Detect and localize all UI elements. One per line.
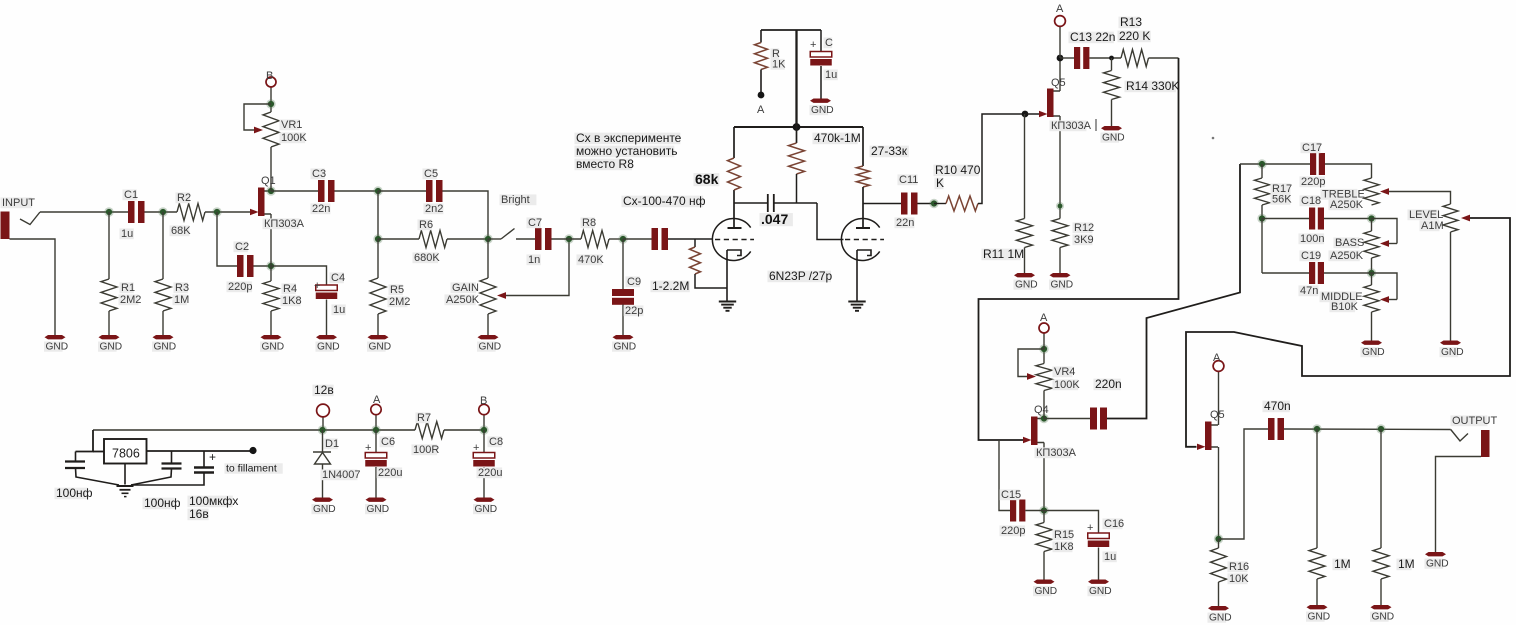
svg-text:1u: 1u	[825, 69, 837, 81]
wire R14 stem bottom	[1111, 100, 1113, 127]
svg-text:220p: 220p	[228, 281, 252, 293]
junction node C9	[618, 234, 627, 243]
ground GND level	[1440, 341, 1461, 345]
value 100n	[1299, 233, 1325, 244]
wire top mini rail	[761, 29, 821, 31]
wire R 1K bottom	[760, 70, 762, 93]
capacitor C13	[1074, 47, 1080, 69]
junction node C8	[479, 425, 488, 434]
svg-text:GND: GND	[1209, 613, 1232, 624]
svg-text:C9: C9	[627, 276, 641, 288]
wire R6 right	[447, 238, 488, 240]
value 100K VR4	[1053, 379, 1079, 390]
wire Q4 drain to VR4	[1043, 391, 1045, 419]
wire node to C16	[1044, 511, 1099, 534]
value 1u C16	[1103, 551, 1117, 562]
junction node C7 right	[564, 234, 573, 243]
wire 12v terminal stem	[322, 417, 324, 430]
svg-text:R11 1M: R11 1M	[983, 247, 1024, 261]
label to filament	[225, 463, 283, 473]
svg-text:1K8: 1K8	[1054, 541, 1074, 553]
label C6	[380, 436, 394, 447]
wire regulator ground stem	[124, 464, 126, 485]
wire bass wiper shaft	[1389, 243, 1397, 245]
capacitor C1	[128, 201, 135, 223]
label KP303A Q5m	[1050, 120, 1087, 131]
junction node C3/C5/R5	[373, 186, 382, 195]
tube V1b envelope	[841, 219, 879, 261]
wire Cx to tube grid	[668, 238, 713, 240]
wire middle wiper shaft	[1389, 299, 1397, 301]
ground GND C 1u	[810, 99, 831, 103]
svg-text:C3: C3	[312, 168, 326, 180]
label C4	[330, 272, 344, 283]
potentiometer TREBLE A250K	[1364, 178, 1379, 205]
svg-text:Q5: Q5	[1051, 77, 1066, 89]
svg-text:VR4: VR4	[1054, 366, 1075, 378]
wire R15 stem bottom	[1043, 552, 1045, 580]
label KP303A Q4	[1035, 447, 1072, 458]
resistor R5	[370, 278, 386, 314]
svg-text:GND: GND	[1362, 347, 1385, 358]
potentiometer VR4 100K	[1036, 364, 1052, 391]
wire rail to regulator input	[76, 430, 94, 452]
label C18	[1300, 195, 1320, 206]
svg-text:1M: 1M	[1334, 557, 1351, 571]
wire R8 to C9 node	[609, 238, 623, 240]
svg-text:C4: C4	[331, 272, 345, 284]
junction node VR1 wiper tap	[266, 99, 275, 108]
wire 1M b stem	[1380, 429, 1382, 548]
wire output sleeve to ground	[1436, 457, 1482, 553]
wire R13 to feedback line	[1149, 57, 1179, 59]
terminal A middle	[1055, 16, 1066, 27]
svg-text:22p: 22p	[625, 305, 643, 317]
wire C8 stem	[483, 430, 485, 453]
svg-text:R12: R12	[1074, 222, 1094, 234]
label BASS	[1334, 237, 1360, 248]
capacitor C2	[237, 255, 244, 277]
junction node C6	[371, 425, 380, 434]
label C1	[123, 189, 137, 200]
terminal A Q5	[1213, 361, 1224, 372]
ground GND R15	[1034, 580, 1055, 584]
capacitor 220n	[1090, 408, 1097, 430]
ground GND C9	[613, 335, 634, 339]
wire Q3 source down	[1059, 116, 1061, 219]
value 100K VR1	[280, 132, 306, 143]
svg-text:Q4: Q4	[1034, 404, 1049, 416]
junction node R1	[104, 207, 113, 216]
svg-text:220u: 220u	[378, 467, 402, 479]
value A1M	[1420, 220, 1440, 231]
junction node C15/R15	[1039, 506, 1048, 515]
junction node R4/C4	[266, 261, 275, 270]
value 100uF	[188, 496, 233, 508]
svg-text:100нф: 100нф	[56, 486, 93, 500]
wire .047 to grid node	[774, 202, 817, 204]
svg-text:Bright: Bright	[501, 194, 530, 206]
wire R16 stem top	[1218, 539, 1220, 548]
capacitor 470n	[1268, 418, 1275, 440]
svg-text:C19: C19	[1301, 250, 1321, 262]
label C19	[1300, 250, 1320, 261]
output jack J2	[1481, 430, 1490, 457]
wire C1 to R2	[145, 211, 178, 213]
value 220 K	[1118, 31, 1151, 43]
wire middle top stem	[1371, 273, 1373, 285]
wire Q3 drain up	[1059, 58, 1061, 91]
value 3K9	[1073, 234, 1093, 245]
wire R14 stem top	[1111, 58, 1113, 71]
svg-text:GND: GND	[1441, 347, 1464, 358]
ground GND C6	[366, 498, 387, 502]
wire R17 stem bottom	[1261, 205, 1263, 219]
svg-text:можно установить: можно установить	[576, 144, 677, 158]
value 100R	[412, 444, 438, 455]
capacitor Cx	[652, 228, 659, 250]
capacitor 100uF 16v	[194, 466, 214, 468]
value 680K	[413, 252, 439, 263]
wire V1a cathode to earth	[726, 250, 728, 302]
label C15	[1000, 489, 1020, 500]
wire 1M b bottom	[1380, 579, 1382, 605]
resistor 1-2.2M grid leak top stem	[694, 239, 696, 247]
value 100nf 2	[143, 498, 176, 510]
svg-text:100мкфх: 100мкфх	[189, 494, 238, 508]
wire C9 to ground	[622, 305, 624, 336]
label Bright	[500, 194, 537, 205]
wire C16 to ground	[1098, 548, 1100, 580]
svg-text:GAIN: GAIN	[452, 282, 479, 294]
wire C5 right down	[443, 191, 489, 239]
svg-text:C1: C1	[124, 189, 138, 201]
label R3	[174, 282, 188, 293]
svg-text:68k: 68k	[695, 171, 719, 187]
label INPUT	[1, 197, 32, 208]
svg-text:A: A	[1040, 312, 1048, 324]
wire node to C5	[378, 190, 426, 192]
svg-text:GND: GND	[367, 504, 390, 515]
wire A terminal stem	[375, 415, 377, 430]
label R17	[1271, 183, 1291, 194]
value 470k-1M	[813, 133, 858, 145]
ground GND C4	[316, 335, 337, 339]
wire switch to C7	[516, 238, 535, 240]
svg-text:A: A	[373, 394, 381, 406]
wire C11 to R10	[918, 203, 935, 205]
svg-text:GND: GND	[317, 342, 340, 353]
wire level wiper to Q5 gate	[1186, 218, 1510, 447]
svg-text:.047: .047	[761, 211, 788, 227]
resistor R7 100R	[415, 422, 444, 439]
wire R16 stem bottom	[1218, 582, 1220, 606]
note Cx line1	[575, 133, 681, 145]
wire 470k-1M bottom	[796, 174, 798, 203]
svg-text:10K: 10K	[1229, 573, 1249, 585]
tube V1a cathode	[727, 250, 741, 256]
junction node bass bottom	[1367, 268, 1376, 277]
wire treble wiper to level	[1389, 192, 1451, 205]
svg-text:GND: GND	[100, 342, 123, 353]
svg-text:C18: C18	[1301, 195, 1321, 207]
value 2M2 R5	[388, 296, 408, 307]
label D1	[324, 438, 338, 449]
svg-text:OUTPUT: OUTPUT	[1452, 415, 1498, 427]
wire R10 up to gate node	[978, 114, 1025, 204]
terminal 12v	[317, 404, 330, 417]
svg-text:R1: R1	[121, 282, 135, 294]
svg-text:22n: 22n	[896, 217, 914, 229]
value 470n	[1263, 401, 1290, 413]
value A250K bass	[1329, 250, 1360, 261]
wire C13 to R13/R14 node	[1089, 57, 1121, 59]
wire R1 stem bottom	[108, 311, 110, 335]
wire Q1 drain to C3	[271, 190, 318, 192]
wire Q1 drain to VR1	[270, 147, 272, 191]
junction node Q4 drain	[1039, 414, 1048, 423]
VR1 wiper arrow	[254, 127, 263, 134]
terminal B psu	[479, 404, 489, 414]
junction node R6 left	[373, 234, 382, 243]
capacitor C11	[901, 193, 908, 215]
wire C18 right lead	[1324, 218, 1372, 220]
BASS wiper arrow	[1380, 240, 1389, 247]
svg-text:GND: GND	[475, 504, 498, 515]
label 12v	[313, 385, 334, 397]
svg-text:B10K: B10K	[1331, 301, 1359, 313]
diode D1 1N4007	[313, 451, 331, 453]
tube V1b plate	[856, 227, 870, 229]
wire C19 right lead	[1324, 272, 1372, 274]
wire R4 stem bottom	[270, 311, 272, 335]
wire VR1 top stem	[270, 87, 272, 112]
wire R1 stem top	[108, 212, 110, 279]
resistor R17 56K	[1255, 178, 1270, 205]
label 6N23P	[768, 271, 832, 283]
wire cap2 to earth	[131, 469, 172, 486]
value R14 330K	[1125, 81, 1176, 93]
svg-text:VR1: VR1	[281, 119, 302, 131]
wire C17 to treble	[1325, 164, 1372, 178]
ground GND R4	[261, 335, 282, 339]
ground GND C16	[1088, 580, 1109, 584]
resistor R8	[581, 231, 609, 248]
wire D1 stem	[322, 430, 324, 452]
svg-text:12в: 12в	[314, 383, 334, 397]
tube V1a plate	[728, 227, 742, 229]
resistor R6	[419, 231, 447, 248]
wire R3 stem top	[162, 212, 164, 279]
wire cap1 to earth	[76, 468, 120, 485]
ground GND input	[45, 335, 66, 339]
capacitor .047	[767, 194, 769, 212]
label R15	[1053, 529, 1073, 540]
wire 1M a stem	[1316, 429, 1318, 548]
wire 27-33k top	[862, 127, 864, 166]
svg-text:GND: GND	[1308, 612, 1331, 623]
wire Q4 drain to 220n	[1044, 418, 1090, 420]
value 22n C3	[311, 203, 331, 214]
label C3	[311, 168, 325, 179]
wire bass bottom stem	[1371, 258, 1373, 273]
label C8	[488, 436, 502, 447]
svg-text:1-2.2M: 1-2.2M	[652, 279, 689, 293]
junction node D1	[318, 425, 327, 434]
junction node VR4 top	[1039, 344, 1048, 353]
capacitor C4 electrolytic	[316, 285, 338, 291]
svg-text:GND: GND	[1426, 559, 1449, 570]
label GAIN	[451, 282, 477, 293]
value 22n C11	[895, 217, 915, 228]
junction node R13/R14	[1109, 56, 1114, 61]
label R1	[120, 282, 134, 293]
svg-text:A250K: A250K	[1330, 199, 1364, 211]
value 1n	[527, 254, 541, 265]
svg-text:1n: 1n	[528, 254, 540, 266]
value 56K	[1271, 194, 1291, 205]
wire C15 to node	[1025, 510, 1044, 512]
wire 220n to tone stack	[1107, 164, 1240, 419]
label TREBLE	[1321, 189, 1358, 200]
resistor R 1K	[755, 43, 768, 70]
value 1K8 R15	[1053, 541, 1073, 552]
wire bass tap	[1372, 219, 1398, 244]
svg-text:+: +	[810, 39, 816, 51]
wire level bottom stem	[1450, 232, 1452, 341]
input jack tip contact	[20, 212, 40, 225]
potentiometer BASS A250K	[1364, 231, 1379, 258]
value 470K	[577, 254, 603, 265]
value .047 bold	[760, 213, 793, 226]
capacitor 100nf input	[65, 460, 85, 462]
value 16v	[188, 509, 209, 521]
svg-text:R8: R8	[582, 217, 596, 229]
junction node mid rail left	[1257, 214, 1266, 223]
svg-text:GND: GND	[313, 504, 336, 515]
wire R17 stem top	[1261, 164, 1263, 178]
junction node C11/R10	[929, 199, 938, 208]
svg-text:A: A	[757, 104, 765, 116]
power rail 12V	[93, 429, 415, 431]
wire middle tap	[1372, 273, 1398, 300]
junction node 1M a	[1312, 424, 1321, 433]
svg-text:3K9: 3K9	[1074, 234, 1094, 246]
wire node down to R6 row	[377, 191, 379, 239]
svg-text:1N4007: 1N4007	[322, 469, 361, 481]
capacitor C17	[1310, 153, 1316, 175]
tube V1a grid	[715, 239, 754, 241]
svg-text:2M2: 2M2	[389, 296, 410, 308]
terminal A psu	[371, 404, 381, 414]
svg-text:GND: GND	[1372, 612, 1395, 623]
value 220u C8	[477, 467, 503, 478]
resistor 470k-1M	[789, 143, 805, 174]
label R12	[1073, 222, 1093, 233]
value 1N4007	[321, 469, 358, 480]
resistor 68k	[728, 158, 741, 190]
wire bass stems	[1371, 219, 1373, 232]
value 100nf 1	[55, 488, 88, 500]
wire grid node down to V1b grid	[817, 203, 844, 240]
svg-text:КП303А: КП303А	[264, 218, 305, 230]
wire Q1 source down	[270, 214, 272, 266]
value 27-33k	[870, 146, 909, 158]
svg-text:A1M: A1M	[1421, 220, 1444, 232]
artifact cursor mark	[1095, 119, 1097, 131]
value C13 22n	[1069, 32, 1114, 44]
ground GND gain	[478, 335, 499, 339]
wire C9 stem	[622, 239, 624, 289]
wire cap1 stem	[75, 452, 77, 462]
wire gate node to arrow	[1025, 113, 1041, 115]
svg-text:1u: 1u	[121, 228, 133, 240]
wire output row	[1284, 428, 1451, 431]
svg-text:C11: C11	[899, 174, 918, 186]
resistor R1	[101, 279, 117, 311]
svg-text:A: A	[1213, 352, 1221, 364]
svg-text:27-33к: 27-33к	[871, 144, 908, 158]
resistor R15 1K8	[1036, 523, 1052, 552]
wire cap3 stem	[203, 451, 205, 468]
label OUTPUT	[1451, 415, 1488, 426]
svg-text:680K: 680K	[414, 252, 440, 264]
svg-text:1u: 1u	[333, 304, 345, 316]
svg-text:R7: R7	[417, 412, 431, 424]
svg-text:КП303А: КП303А	[1036, 447, 1077, 459]
svg-text:220 K: 220 K	[1119, 29, 1150, 43]
wire C 1u to ground	[820, 66, 822, 99]
svg-text:100n: 100n	[1300, 233, 1324, 245]
label VR1	[280, 119, 300, 130]
svg-text:220n: 220n	[1095, 377, 1122, 391]
wire A terminal stem	[1059, 27, 1061, 59]
value 1-2.2M	[651, 281, 690, 293]
label MIDDLE	[1320, 291, 1357, 302]
ground GND R3	[153, 335, 174, 339]
svg-text:A250K: A250K	[446, 294, 480, 306]
svg-text:B: B	[266, 70, 273, 82]
capacitor C19	[1309, 262, 1315, 284]
svg-text:R4: R4	[283, 283, 297, 295]
svg-text:C6: C6	[381, 436, 395, 448]
svg-text:56K: 56K	[1272, 194, 1292, 206]
svg-text:to fillament: to fillament	[226, 463, 277, 475]
ground GND 1M a	[1307, 605, 1328, 609]
label C11	[898, 174, 918, 185]
wire tone rail	[1240, 163, 1310, 165]
wire to R10	[934, 203, 946, 205]
value 220n	[1094, 379, 1121, 391]
value 10K	[1228, 573, 1248, 584]
wire R 1K top	[760, 30, 762, 43]
svg-text:GND: GND	[154, 342, 177, 353]
svg-text:1M: 1M	[1398, 557, 1415, 571]
svg-text:GND: GND	[1015, 280, 1038, 291]
resistor 1M a	[1309, 548, 1325, 579]
label R2	[176, 192, 190, 203]
svg-text:2M2: 2M2	[120, 294, 141, 306]
wire C3 to node	[335, 190, 379, 192]
ground GND R5	[368, 335, 389, 339]
earth ground V1b	[848, 301, 865, 303]
wire 1M a bottom	[1316, 579, 1318, 605]
ground GND D1	[312, 498, 333, 502]
svg-text:100K: 100K	[1054, 379, 1080, 391]
resistor R10 470K	[946, 196, 978, 211]
wire B terminal stem	[483, 415, 485, 430]
svg-text:GND: GND	[369, 342, 392, 353]
